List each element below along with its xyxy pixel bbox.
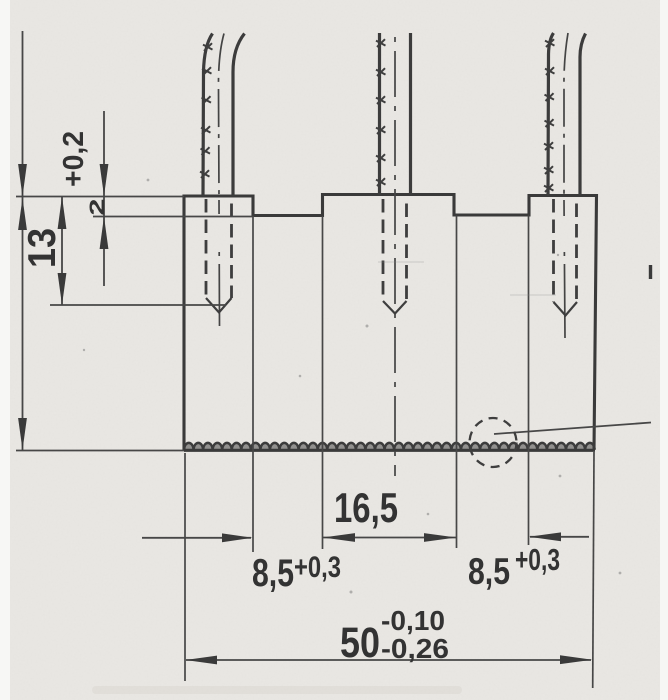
- extension line bottom edge y=450: [16, 450, 184, 452]
- wire 1 strand marks: [200, 43, 213, 178]
- extension line tab2 right edge extended down: [456, 216, 458, 549]
- extension line tab3 left edge extended down: [528, 216, 530, 546]
- detail circle (dashed): [470, 418, 517, 467]
- leader line from detail circle: [494, 423, 651, 435]
- extension line top of tab level y=196: [16, 196, 184, 198]
- arrowhead right dim 50: [560, 655, 592, 664]
- arrowhead left dim 50: [185, 656, 217, 665]
- svg-text:13: 13: [21, 228, 64, 268]
- scan white margin left: [0, 0, 10, 700]
- wire 2 strand marks: [376, 39, 386, 186]
- arrowhead right dim 16,5: [424, 533, 456, 542]
- arrowhead down at y196 far-left line: [18, 164, 27, 197]
- arrowhead down at y450 far-left line: [18, 418, 27, 450]
- svg-text:+0,3: +0,3: [515, 542, 560, 577]
- wire 3 strand marks: [544, 39, 555, 192]
- wire 2 hidden tip: [383, 301, 407, 314]
- svg-text:-0,26: -0,26: [381, 633, 449, 664]
- svg-text:50: 50: [340, 619, 380, 667]
- dimension line 50: [186, 659, 591, 661]
- svg-text:8,5: 8,5: [252, 552, 294, 595]
- wire 2 centerline (dash-dot, continues below tip): [394, 33, 396, 476]
- svg-text:+0,3: +0,3: [294, 551, 341, 584]
- dimension line 16,5: [323, 537, 456, 539]
- faint scan streaks: [378, 262, 556, 295]
- scan white margin right: [660, 0, 668, 700]
- extension line tab2 left edge extended down: [322, 216, 324, 549]
- wire 1 hidden tip: [206, 298, 232, 313]
- dimension line 2: [103, 111, 105, 286]
- arrowhead left dim 16,5: [323, 533, 355, 542]
- arrowhead right dim 8,5 left: [222, 533, 253, 542]
- extension line tab1 right edge extended down: [252, 216, 254, 552]
- wire 3 hidden tip: [554, 302, 578, 316]
- wire 2 visible edges (straight): [380, 33, 411, 195]
- extension line wire tip depth y=305: [50, 304, 226, 306]
- wire 2 hidden edges inside body (dashed): [382, 199, 385, 301]
- serrated (knurled) bottom edge base line: [184, 449, 595, 452]
- arrowhead up at y197 far-left line: [18, 198, 27, 230]
- svg-text:8,5: 8,5: [468, 551, 510, 592]
- dimension line 13: [61, 197, 63, 306]
- wire 1 visible edges (curved at top): [203, 34, 245, 197]
- dimension line 8,5 right (outside arrow tail): [530, 536, 589, 538]
- part body outline with three top tabs: [184, 195, 597, 451]
- svg-text:16,5: 16,5: [334, 484, 398, 531]
- wire 3 visible edges (slight curve at top): [548, 33, 586, 196]
- svg-text:-0,10: -0,10: [381, 605, 445, 636]
- extension line body right edge extended down: [593, 452, 594, 688]
- serration scallops: [184, 443, 595, 449]
- scan smudge bottom: [92, 686, 462, 694]
- paper speckles: [83, 179, 622, 594]
- tick mark right margin: [649, 265, 652, 279]
- wire 1 hidden edges inside body (dashed): [205, 199, 208, 298]
- arrowhead up dim 13: [58, 197, 67, 230]
- dimension line 8,5 left (outside arrow tail): [142, 537, 251, 539]
- extension line body top level y=216: [93, 216, 253, 218]
- wire 3 hidden edges inside body (dashed): [552, 199, 555, 302]
- arrowhead down dim 13: [58, 273, 67, 305]
- arrowhead down dim 2: [100, 164, 109, 196]
- arrowhead left dim 8,5 right: [529, 532, 561, 541]
- svg-text:+0,2: +0,2: [58, 131, 90, 187]
- arrowhead up dim 2: [100, 217, 109, 250]
- overall-height dimension line far left: [22, 31, 24, 450]
- wire 3 centerline (dash-dot): [564, 33, 568, 199]
- svg-text:2: 2: [86, 199, 109, 216]
- extension line body left edge extended down: [184, 453, 186, 681]
- wire 1 centerline (dash-dot): [218, 34, 224, 200]
